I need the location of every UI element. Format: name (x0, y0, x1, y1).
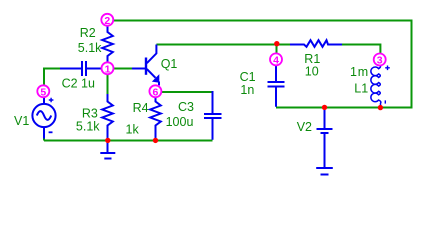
svg-text:Q1: Q1 (161, 57, 178, 71)
svg-text:4: 4 (273, 54, 279, 66)
wire node4 stub (276, 46, 278, 53)
wire right border vertical (411, 20, 413, 108)
svg-text:V2: V2 (297, 120, 312, 134)
resistor R4 (150, 98, 161, 140)
junction dot R3 bottom (105, 138, 110, 143)
node 5 (37, 85, 49, 98)
svg-text:100u: 100u (166, 115, 194, 129)
svg-text:5.1k: 5.1k (76, 119, 100, 133)
battery V2 (317, 108, 333, 168)
node 4 (270, 53, 282, 66)
svg-text:1: 1 (105, 63, 111, 75)
svg-text:6: 6 (152, 86, 158, 98)
svg-text:1k: 1k (126, 123, 140, 137)
capacitor C1 (268, 66, 285, 107)
wire bottom left horizontal (44, 140, 213, 142)
junction dot node4 (274, 41, 279, 46)
node 3 (374, 54, 386, 67)
capacitor C2 (60, 61, 102, 76)
inductor L1 (371, 65, 381, 107)
svg-text:10: 10 (305, 65, 319, 79)
wire R1 to node3 (342, 44, 380, 54)
svg-text:C1: C1 (240, 70, 256, 84)
svg-text:R2: R2 (80, 26, 96, 40)
resistor R1 (290, 40, 342, 47)
svg-text:5: 5 (40, 86, 46, 98)
ground right (316, 168, 333, 175)
svg-text:L1: L1 (354, 82, 368, 96)
svg-text:2: 2 (104, 15, 110, 27)
resistor R3 (102, 94, 113, 140)
transistor Q1 (132, 45, 159, 86)
wire node2 to top-right corner (114, 20, 412, 22)
source V1 (32, 98, 55, 139)
wire node1 to Q1 base (114, 68, 133, 70)
svg-text:C2 1u: C2 1u (62, 77, 95, 91)
V1 minus mark (49, 131, 53, 133)
junction dot L1 bottom (378, 105, 383, 110)
node 2 (101, 14, 113, 27)
resistor R2 (102, 27, 113, 63)
capacitor C3 (204, 91, 222, 140)
ground left (100, 141, 115, 159)
node 6 (149, 85, 161, 98)
svg-text:5.1k: 5.1k (78, 41, 102, 55)
svg-text:3: 3 (377, 55, 383, 67)
L1 plus mark (385, 66, 390, 71)
wire node1 down to R3 (107, 75, 109, 95)
node 1 (102, 62, 114, 75)
svg-text:C3: C3 (178, 100, 194, 114)
svg-text:1m: 1m (350, 65, 369, 79)
wire C2 left to V1 node5 (44, 68, 60, 86)
junction dot R4 bottom (153, 138, 158, 143)
svg-text:R4: R4 (133, 101, 149, 115)
wire V1 bottom (43, 138, 45, 141)
svg-text:1n: 1n (240, 83, 254, 97)
wire collector to node4 junction to R1 (156, 44, 290, 46)
L1 minus mark (384, 100, 386, 103)
svg-text:V1: V1 (14, 114, 29, 128)
wire bottom right horizontal (276, 107, 413, 109)
V1 plus mark (49, 98, 54, 103)
wire node6 to C3 (162, 91, 213, 93)
junction dot V2 top (322, 105, 327, 110)
